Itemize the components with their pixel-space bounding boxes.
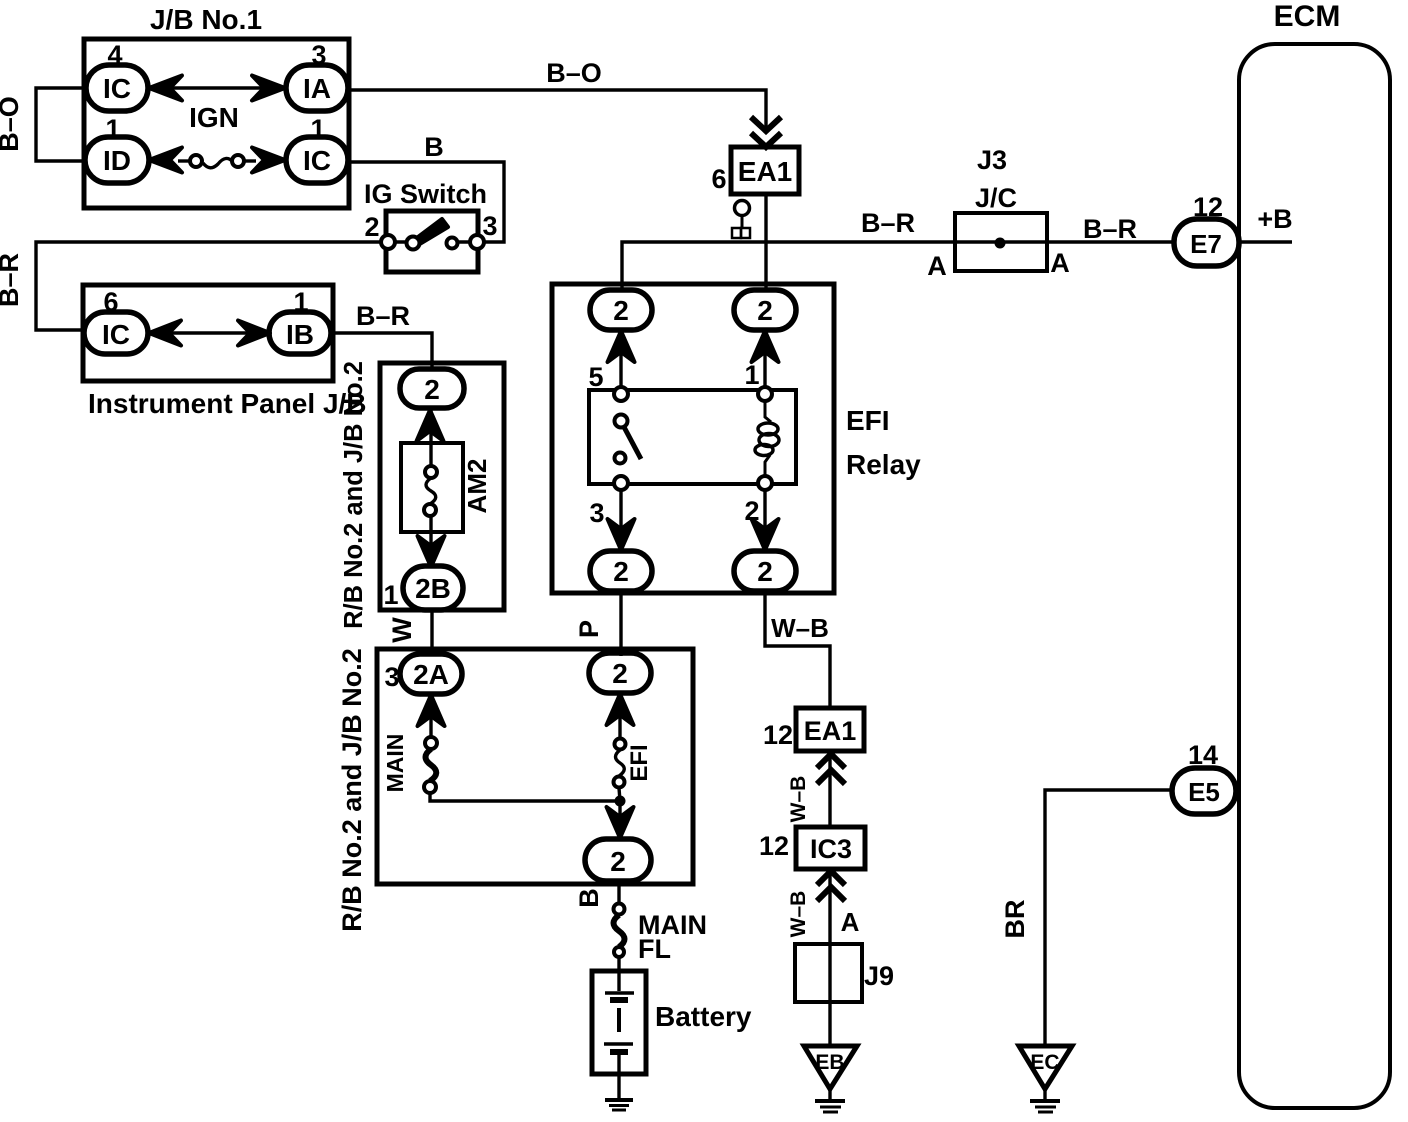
svg-text:B–O: B–O [546,58,602,88]
svg-text:IC3: IC3 [810,834,852,864]
noise filter base squares [732,228,741,238]
noise filter symbol circle [735,201,750,216]
inner contact circle right [447,238,458,249]
fusible link MAIN FL circle bottom [614,947,624,957]
arrowhead right (IGN row top) [252,76,285,101]
connector oval E5 [1172,768,1236,814]
ground EC bar2 [1035,1106,1056,1109]
svg-text:W–B: W–B [787,891,810,938]
fuse AM2 circle top [425,466,437,478]
connector oval IC (bottom-right, pin 1) [286,137,348,183]
svg-text:EFI: EFI [626,744,653,781]
ground EB triangle [804,1046,857,1089]
wire B run [348,162,504,242]
wire 2 to EFI fuse [618,693,621,738]
svg-text:ID: ID [103,145,131,176]
arrowhead up (to relay TL oval) [608,331,635,362]
fuse EFI circle top [615,739,626,750]
svg-text:2B: 2B [415,573,451,604]
junction block J/B No.1 box [84,39,349,208]
inner contact circle left [407,237,420,250]
wire inner contact to pin3 [452,240,477,243]
arrowhead up (to 2A) [418,695,445,726]
relay pin circle 3 [614,476,628,490]
svg-text:J3: J3 [977,145,1007,175]
svg-text:5: 5 [588,362,603,392]
wire relay pin 2 to BR oval [763,483,766,552]
wire relay TL oval to pin 5 [619,330,622,394]
wire B-O top run [348,90,766,130]
svg-text:3: 3 [384,662,399,692]
svg-text:B–O: B–O [0,96,24,152]
relay coil [765,401,771,422]
svg-text:IGN: IGN [189,102,239,133]
arrowhead up (to 2 top right) [607,694,634,725]
svg-text:W–B: W–B [787,776,810,823]
svg-text:Instrument Panel J/B: Instrument Panel J/B [88,388,367,419]
junction dot [615,796,626,807]
svg-text:2: 2 [424,374,440,405]
ground EB bar2 [820,1106,841,1109]
fuse IGN circle right [232,155,244,167]
wire EA1 to relay oval 2 [764,194,767,291]
svg-text:6: 6 [711,164,726,194]
connector oval 2B [403,566,463,610]
wire B-R horizontal bus [622,242,1292,291]
wire oval2 to MAIN FL [617,881,620,904]
fuse MAIN thick wave [426,749,437,781]
junction connector J3 box [955,213,1047,271]
fuse IGN wire right stub [244,159,256,162]
J3 junction dot [995,238,1006,249]
arrowhead down (to 2B) [418,536,445,567]
battery box [592,971,646,1074]
svg-text:MAIN: MAIN [382,734,408,793]
svg-text:EFI: EFI [846,405,890,436]
ground EC bar1 [1030,1099,1060,1103]
relay inner box [589,390,796,484]
svg-text:AM2: AM2 [462,459,492,514]
arrowhead right (instrument) [238,321,270,346]
battery plate long top [605,991,634,995]
svg-text:Relay: Relay [846,449,921,480]
svg-text:EA1: EA1 [804,716,857,746]
svg-text:B–R: B–R [0,253,24,307]
upper R/B box [380,363,504,610]
ground EC triangle [1019,1046,1072,1089]
relay switch contact upper [615,415,628,428]
EFI relay box [552,284,834,593]
svg-text:IA: IA [303,73,331,104]
svg-text:2: 2 [613,295,629,326]
arrowhead down (to bottom oval 2) [607,807,634,838]
relay switch lever [624,427,641,459]
connector oval 2 (relay top-left) [590,290,652,330]
svg-text:12: 12 [759,831,789,861]
fusible link MAIN FL thick wave [614,915,625,947]
ground EB stub [828,1089,831,1100]
switch lever [414,219,448,245]
svg-text:B–R: B–R [861,208,915,238]
arrowhead up (to oval 2) [417,410,444,441]
svg-text:IC: IC [103,73,131,104]
connector oval 2 (relay top-right) [734,290,796,330]
fuse MAIN circle top [425,737,437,749]
svg-text:P: P [574,620,604,638]
battery plate long bottom [604,1042,633,1046]
svg-text:3: 3 [482,211,497,241]
connector oval 2A [400,654,462,694]
svg-text:2: 2 [757,295,773,326]
wire W from 2B to 2A [430,610,433,656]
wire B-O loop left of J/B No.1 [36,88,88,161]
chevron up 2 (below EA1) [817,770,845,784]
svg-text:A: A [841,907,860,937]
fuse IGN circle left [190,155,202,167]
chevron up 1 (below EA1) [817,754,845,768]
ground below battery bar3 [612,1109,626,1112]
svg-text:2A: 2A [413,659,449,690]
wire junction to bottom oval 2 [618,801,621,845]
ground below battery bar2 [609,1104,629,1107]
wire BR from E5 to EC ground [1045,790,1172,1048]
fuse MAIN circle bottom [424,781,436,793]
svg-text:A: A [1050,248,1070,278]
connector oval 2 (relay bottom-left) [590,551,652,591]
wire B-R from pin 2 to Instrument Panel J/B [36,242,381,330]
arrowhead right (IGN row bottom) [252,148,285,173]
pin 3 circle [470,235,484,249]
svg-text:Battery: Battery [655,1001,752,1032]
junction connector J9 box [795,944,862,1002]
chevron up 2 (below IC3) [817,887,845,901]
svg-text:E5: E5 [1188,777,1220,807]
svg-text:2: 2 [610,846,626,877]
connector IC3 box (pin 12) [796,827,865,869]
svg-text:2: 2 [364,212,379,242]
connector oval IC (top-left, pin 4) [86,65,148,111]
IG switch box [386,211,478,272]
connector oval ID (bottom-left, pin 1) [85,137,149,183]
svg-text:1: 1 [744,360,759,390]
svg-text:R/B No.2 and J/B No.2: R/B No.2 and J/B No.2 [340,361,368,629]
svg-text:IC: IC [303,145,331,176]
ground EB bar1 [815,1099,845,1103]
svg-text:IC: IC [102,319,130,350]
fusible link MAIN FL circle top [614,904,625,915]
connector EA1 box (pin 6) [731,147,799,194]
svg-text:E7: E7 [1190,229,1222,259]
pin 2 circle [381,235,395,249]
wire pin2 to inner contact [388,240,413,243]
connector oval 2 (relay bottom-right) [734,551,796,591]
svg-text:R/B No.2 and J/B No.2: R/B No.2 and J/B No.2 [337,648,367,932]
arrowhead down (to relay BL oval) [608,519,635,550]
wire MAIN bottom to junction [430,793,620,801]
connector oval IA (top-right, pin 3) [286,65,348,111]
svg-text:12: 12 [763,720,793,750]
battery internal wire bottom [617,1055,620,1098]
fuse IGN wave [203,158,233,167]
chevron 1 above EA1 [751,117,781,131]
svg-text:IG Switch: IG Switch [364,179,487,209]
battery internal wire top [617,973,620,991]
wire IB to R/B No.2 oval 2 [332,333,432,370]
svg-text:EB: EB [815,1051,844,1074]
arrowhead left (IGN row bottom) [149,148,182,173]
wire 2A to MAIN fuse [429,694,432,737]
fuse IGN wire left stub [178,159,190,162]
wire relay TR oval to pin 1 [763,330,766,394]
svg-text:BR: BR [1000,900,1030,939]
chevron 2 above EA1 [751,133,781,147]
connector EA1 box (pin 12) [796,708,864,751]
wire MAIN FL to battery [617,957,620,973]
fuse AM2 circle bottom [424,504,436,516]
lower R/B box [377,649,693,884]
arrowhead left (instrument) [149,321,181,346]
battery plate short thick top [610,997,628,1003]
connector oval E7 [1174,219,1239,266]
relay pin circle 5 [614,387,628,401]
svg-text:J/B No.1: J/B No.1 [150,4,262,35]
fuse AM2 wave [426,478,436,504]
ground EB bar3 [823,1111,838,1114]
svg-text:2: 2 [612,658,628,689]
svg-text:B: B [424,132,444,162]
svg-text:3: 3 [589,498,604,528]
ground below battery bar1 [605,1098,633,1102]
svg-text:B–R: B–R [356,301,410,331]
fuse EFI circle bottom [614,777,625,788]
fuse EFI wave [616,750,625,776]
svg-text:W: W [387,617,417,643]
svg-text:FL: FL [638,934,671,964]
svg-text:W–B: W–B [771,613,829,643]
svg-text:J/C: J/C [975,183,1017,213]
arrowhead up (to relay TR oval) [752,331,779,362]
connector oval 2 (top of AM2) [400,369,464,408]
connector oval IC (pin 6) [84,312,148,354]
relay switch contact lower [615,453,626,464]
svg-text:A: A [927,251,947,281]
relay pin circle 1 [758,387,772,401]
wire relay pin 3 to BL oval [619,483,622,552]
svg-text:+B: +B [1257,204,1292,234]
relay pin circle 2 [758,476,772,490]
arrowhead left (IGN row top) [149,76,182,101]
svg-text:2: 2 [757,556,773,587]
svg-text:2: 2 [613,556,629,587]
wire AM2 fuse to 2B [429,516,432,568]
fuse AM2 box [401,443,463,532]
arrowhead down (to relay BR oval) [752,519,779,550]
wire J9 to EB ground [828,944,831,1048]
wire between IC and IB [170,331,248,334]
svg-text:1: 1 [383,580,398,610]
connector oval 2 (bottom of lower box) [585,839,651,881]
wire W-B relay BR down and over [765,591,830,710]
svg-text:EA1: EA1 [738,156,792,187]
svg-text:J9: J9 [864,961,894,991]
wire EA1 to IC3 [828,751,831,828]
svg-text:B–R: B–R [1083,214,1137,244]
battery dashed link [617,1008,621,1032]
ground EC stub [1043,1089,1046,1100]
wire oval2 to AM2 fuse [429,408,432,466]
instrument panel J/B box [83,285,333,381]
noise filter stem [741,215,744,229]
wire P relay BL to lower box 2 oval [619,591,622,656]
svg-text:IB: IB [286,319,314,350]
svg-text:EC: EC [1030,1051,1059,1074]
battery plate short thick bottom [610,1049,628,1055]
wire EFI bottom to junction [619,788,620,801]
ground EC bar3 [1038,1111,1053,1114]
wire between IC and IA [170,86,265,89]
wire IC3 to J9 [828,869,831,944]
ECM body [1239,44,1390,1108]
chevron up 1 (below IC3) [817,871,845,885]
svg-text:B: B [574,888,604,908]
connector oval IB (pin 1) [269,312,331,354]
connector oval 2 (top right of lower box) [589,653,651,693]
svg-text:ECM: ECM [1274,0,1341,33]
